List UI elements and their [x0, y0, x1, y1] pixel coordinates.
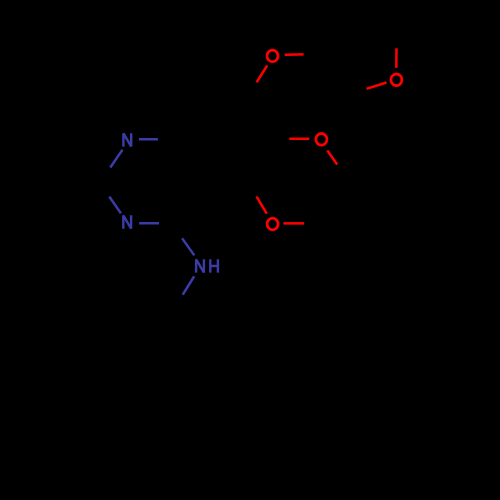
- atom O (methoxy, middle right): [316, 134, 327, 146]
- bond O-C7 half: [257, 65, 268, 82]
- atom O (aryl ether, top, OCH2-oxolane): [267, 50, 278, 62]
- bond NH-CH2 half: [183, 276, 195, 294]
- atom O (oxolane ring oxygen): [391, 74, 402, 86]
- atom N1 (pyrimidine top nitrogen): [123, 133, 131, 146]
- bond N1-C2 half: [110, 150, 122, 168]
- bond O-C5 half (up-left): [257, 197, 267, 214]
- bond O-CH2 half: [285, 53, 304, 56]
- bond O-CH3 half (horizontal right): [283, 222, 304, 225]
- bond O-CH3 half (down-right): [327, 151, 337, 165]
- bond O-C6 half (horizontal left): [289, 137, 309, 140]
- bond O-C2'' half (vertical): [395, 48, 398, 68]
- bond N3-C2 half: [109, 197, 121, 214]
- atom O (methoxy, lower): [267, 218, 278, 230]
- bond N1-C8a half: [139, 138, 158, 141]
- bond O-C5'' half (down-left): [367, 83, 387, 89]
- bond C4-NH half: [182, 238, 194, 255]
- atom N (secondary amine NH): [196, 259, 204, 272]
- bond N3-C4 half: [139, 222, 159, 225]
- atom H of NH: [210, 259, 218, 272]
- atom N3 (pyrimidine bottom nitrogen): [123, 215, 131, 228]
